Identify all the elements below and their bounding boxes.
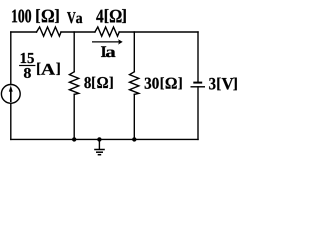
wire bottom xyxy=(11,138,198,140)
wire right rail upper xyxy=(197,32,199,82)
wire branch Va lower xyxy=(73,94,75,139)
label current source denominator 8 xyxy=(24,68,31,78)
label 4 ohm xyxy=(96,9,126,23)
wire left rail xyxy=(10,32,12,85)
label 8 ohm xyxy=(84,77,112,89)
ground xyxy=(94,150,105,155)
wire branch 30ohm lower xyxy=(133,94,135,139)
wire top left segment xyxy=(11,31,37,33)
Ia current arrow xyxy=(93,41,120,43)
resistor 100ohm xyxy=(37,27,62,36)
label 3V xyxy=(209,78,237,91)
wire branch 30ohm upper xyxy=(133,32,135,72)
wire right rail lower xyxy=(197,87,199,140)
label 100 ohm xyxy=(12,9,59,23)
node Va label xyxy=(67,12,82,23)
resistor 30ohm xyxy=(130,72,139,95)
junction dot node Va-8ohm bottom xyxy=(72,137,76,141)
resistor 8ohm xyxy=(69,72,78,95)
wire top middle segment xyxy=(61,31,95,33)
current source I=15/8A xyxy=(1,85,20,104)
label Ia xyxy=(101,46,115,57)
battery 3V negative plate xyxy=(193,82,202,84)
battery 3V positive plate xyxy=(191,86,206,88)
fraction bar xyxy=(19,65,35,66)
resistor 4ohm xyxy=(95,27,119,36)
junction dot 30ohm bottom xyxy=(132,137,136,141)
junction dot ground node xyxy=(97,137,101,141)
wire left rail lower xyxy=(10,103,12,139)
current source arrow xyxy=(10,91,12,102)
wire top right segment xyxy=(119,31,198,33)
wire branch Va upper xyxy=(73,32,75,72)
label unit A xyxy=(37,63,59,75)
ground stub wire xyxy=(98,139,100,149)
label current source numerator 15 xyxy=(21,53,34,63)
label 30 ohm xyxy=(145,77,182,89)
